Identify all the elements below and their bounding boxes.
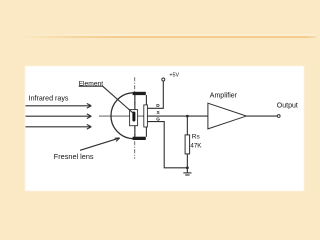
fresnel leader arrow	[80, 138, 120, 150]
element holder	[130, 110, 138, 126]
label Element with underline	[79, 80, 104, 87]
svg-text:Rs: Rs	[192, 134, 201, 141]
wire junction to resistor	[186, 116, 188, 135]
svg-text:+5V: +5V	[169, 72, 179, 78]
svg-text:47K: 47K	[190, 143, 202, 150]
wire resistor to ground rail	[186, 154, 188, 168]
+5V terminal circle	[162, 78, 165, 81]
infrared ray arrow 3	[26, 125, 92, 130]
svg-text:Amplifier: Amplifier	[210, 92, 238, 99]
svg-text:Output: Output	[277, 102, 298, 109]
infrared ray arrow 1	[26, 104, 92, 109]
svg-text:G: G	[156, 117, 160, 122]
source wire S to amplifier	[143, 115, 208, 117]
junction node at ground rail	[186, 166, 189, 169]
ground symbol	[183, 168, 191, 175]
element leader line	[103, 86, 134, 113]
decorative divider stripe	[22, 34, 316, 39]
infrared ray arrow 2	[26, 114, 92, 119]
op-amp amplifier triangle	[208, 103, 246, 129]
svg-text:Infrared rays: Infrared rays	[29, 94, 69, 102]
drain wire to +5V	[147, 81, 163, 108]
pin header	[144, 105, 148, 127]
ground wire from G pin	[147, 122, 187, 168]
svg-text:S: S	[157, 110, 160, 115]
svg-text:Fresnel lens: Fresnel lens	[54, 152, 94, 161]
white schematic panel	[25, 66, 305, 191]
output terminal circle	[277, 115, 280, 118]
sensor can body	[135, 95, 147, 137]
can bottom flange bar	[133, 137, 146, 140]
junction node at S wire	[186, 115, 189, 118]
resistor Rs body	[185, 135, 190, 154]
optical axis center line	[99, 115, 143, 117]
Fresnel lens dome arc	[111, 93, 133, 139]
pyroelectric element	[132, 112, 135, 122]
output wire	[246, 115, 277, 117]
lens plane dashed line	[134, 77, 136, 159]
svg-text:D: D	[156, 103, 160, 108]
can top flange bar	[133, 92, 146, 95]
